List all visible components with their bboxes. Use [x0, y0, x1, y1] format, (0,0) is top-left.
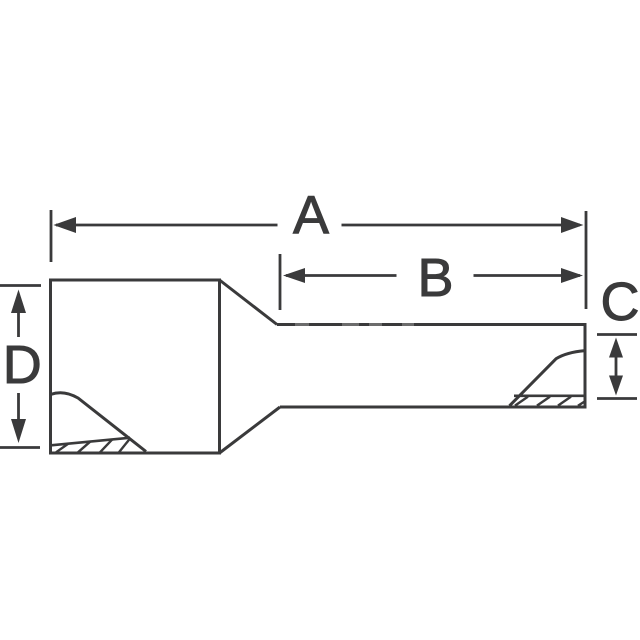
svg-text:C: C [601, 272, 640, 332]
svg-text:B: B [417, 248, 453, 308]
svg-text:A: A [293, 186, 329, 246]
svg-text:D: D [3, 335, 42, 395]
